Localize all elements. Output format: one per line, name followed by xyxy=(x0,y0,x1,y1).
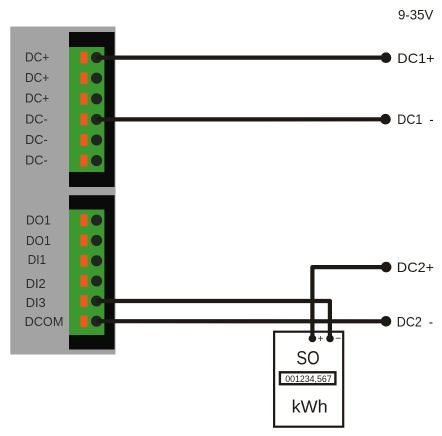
terminal 11 screw hole xyxy=(91,295,102,306)
terminal 2 screw hole xyxy=(91,73,102,84)
terminal 10 screw hole xyxy=(91,275,102,286)
terminal 9 screw hole xyxy=(91,255,102,266)
svg-text:DO1: DO1 xyxy=(26,213,51,228)
connector block 1 housing (black) xyxy=(69,32,115,187)
svg-text:9-35V: 9-35V xyxy=(398,7,434,23)
terminal 3 slot (orange) xyxy=(80,93,87,105)
wire DC2+ to SO plus xyxy=(312,267,386,338)
terminal 4 slot (orange) xyxy=(80,114,87,126)
node DC2- xyxy=(381,316,392,327)
svg-text:DI1: DI1 xyxy=(28,252,46,267)
wire DI3 to SO minus xyxy=(97,301,330,339)
svg-text:DI2: DI2 xyxy=(26,276,46,291)
svg-text:DC2 -: DC2 - xyxy=(397,313,433,329)
terminal 6 screw hole xyxy=(91,155,102,166)
svg-text:DC1 -: DC1 - xyxy=(397,111,433,127)
energy meter box xyxy=(274,332,343,427)
terminal 12 screw hole xyxy=(91,316,102,327)
terminal 6 slot (orange) xyxy=(80,155,87,167)
svg-text:DC-: DC- xyxy=(25,153,48,168)
svg-text:DCOM: DCOM xyxy=(25,314,64,329)
svg-text:DC+: DC+ xyxy=(25,50,49,65)
connector block 2 housing (black) xyxy=(69,195,115,349)
node DC1+ xyxy=(381,52,392,63)
terminal 4 screw hole xyxy=(91,114,102,125)
svg-text:DC-: DC- xyxy=(25,132,48,147)
terminal 5 slot (orange) xyxy=(80,134,87,146)
connector block 1 green strip xyxy=(69,47,104,172)
terminal 10 slot (orange) xyxy=(80,275,87,287)
terminal 7 slot (orange) xyxy=(80,214,87,226)
terminal 5 screw hole xyxy=(91,134,102,145)
terminal 11 slot (orange) xyxy=(80,295,87,307)
terminal 1 screw hole xyxy=(91,52,102,63)
svg-text:DC+: DC+ xyxy=(25,70,49,85)
wire DC- to DC1- xyxy=(97,117,386,121)
node DC2+ xyxy=(381,262,392,273)
terminal 2 slot (orange) xyxy=(80,72,87,84)
terminal 3 screw hole xyxy=(91,93,102,104)
svg-text:−: − xyxy=(335,334,341,345)
terminal 12 slot (orange) xyxy=(80,315,87,327)
meter terminal plus dot xyxy=(309,335,317,343)
terminal 9 slot (orange) xyxy=(80,255,87,267)
svg-text:kWh: kWh xyxy=(292,396,328,416)
svg-text:DC+: DC+ xyxy=(25,91,49,106)
svg-text:DI3: DI3 xyxy=(26,295,46,310)
node DC1- xyxy=(380,114,391,125)
svg-text:001234,567: 001234,567 xyxy=(285,374,332,384)
module body (gray) xyxy=(10,27,115,355)
meter terminal minus dot xyxy=(326,335,334,343)
wire DCOM to DC2- xyxy=(97,319,386,323)
svg-text:DC-: DC- xyxy=(25,111,48,126)
connector block 2 green strip xyxy=(69,210,104,336)
svg-text:+: + xyxy=(318,334,324,345)
wire DC+ to DC1+ xyxy=(97,55,386,59)
svg-text:SO: SO xyxy=(296,348,319,370)
terminal 1 slot (orange) xyxy=(80,52,87,64)
terminal 8 screw hole xyxy=(91,235,102,246)
svg-text:DC2+: DC2+ xyxy=(397,259,434,275)
svg-text:DO1: DO1 xyxy=(26,233,51,248)
terminal 7 screw hole xyxy=(91,215,102,226)
svg-text:DC1+: DC1+ xyxy=(397,50,434,66)
meter counter window xyxy=(280,372,336,384)
terminal 8 slot (orange) xyxy=(80,235,87,247)
